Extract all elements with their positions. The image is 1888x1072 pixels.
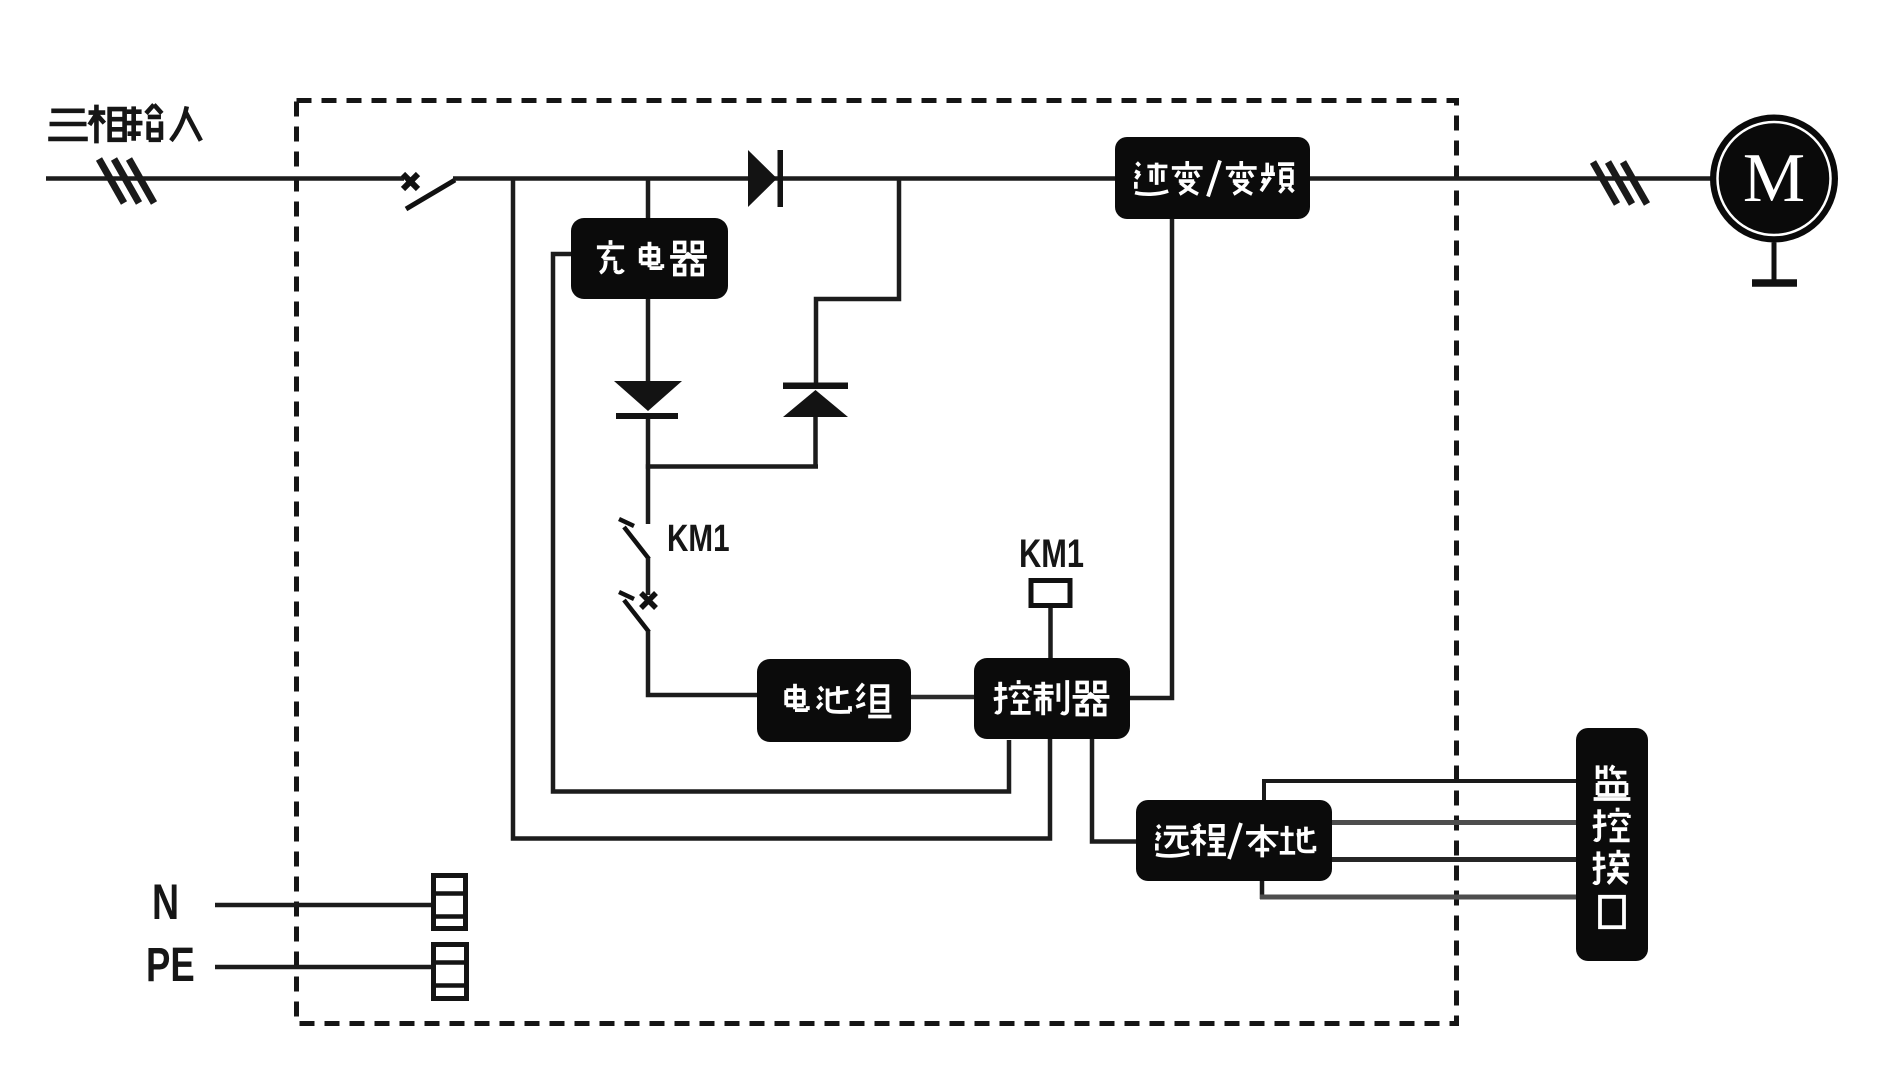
wire: bus branch right of D1 down to free-wheel diode	[816, 178, 899, 384]
wire: charger left tap down and across to controller	[553, 254, 1009, 792]
wire: controller third output to remote/local box	[1092, 739, 1136, 842]
wire: monitor line 4	[1260, 881, 1265, 899]
wire: bus from switch to inverter box	[453, 176, 1118, 181]
box: inverter 逆变/变频	[1115, 137, 1310, 219]
wire: monitor line 3	[1332, 857, 1578, 862]
wire: inverter output to motor	[1310, 176, 1712, 181]
KM1 coil	[1031, 581, 1070, 606]
wire: below D3	[813, 417, 818, 467]
three-phase tick marks (input)	[99, 159, 154, 203]
wire: battery to controller	[911, 695, 974, 700]
wire: three-phase input bus (left of switch)	[46, 176, 404, 181]
switch KM1 contact 1	[619, 519, 634, 526]
switch QS (input disconnect, open blade with x contact)	[403, 174, 418, 189]
motor M	[1710, 115, 1838, 284]
svg-text:PE: PE	[146, 938, 195, 992]
three-phase tick marks (output)	[1593, 162, 1647, 204]
wire: charger feed from bus	[646, 178, 651, 220]
wire: KM1 coil to controller	[1048, 606, 1053, 658]
svg-text:KM1: KM1	[667, 518, 730, 560]
motor shaft	[1772, 243, 1777, 281]
cabinet enclosure (dashed boundary)	[297, 101, 1457, 1024]
box: controller 控制器	[974, 658, 1130, 739]
svg-text:KM1: KM1	[1019, 531, 1084, 576]
wire: monitor line 1	[1264, 781, 1578, 800]
diode D1 (rectifier on bus)	[748, 150, 783, 207]
box: battery pack 电池组	[757, 659, 911, 742]
wire: bypass drop at x=513 down and across to controller	[513, 178, 1050, 839]
switch KM1 contact 2 (with x contact)	[619, 592, 634, 599]
box: charger 充电器	[571, 218, 728, 299]
wire: D2 cathode down to KM1	[646, 419, 651, 524]
diode D2 (charger blocking diode, pointing down)	[614, 381, 682, 419]
wire: KM1 to battery box	[648, 631, 757, 695]
svg-text:M: M	[1743, 140, 1805, 217]
box: monitoring interface 监控接口	[1576, 728, 1648, 961]
wire: tie between D2 and D3 branches	[646, 464, 818, 469]
wire: monitor line 2	[1332, 820, 1578, 825]
diode D3 (boost diode, pointing up)	[783, 383, 848, 418]
wire: charger output down to D2	[646, 299, 651, 382]
label: three-phase input 三相输入	[48, 105, 201, 144]
wire: controller right to inverter vertical	[1130, 219, 1172, 698]
svg-text:N: N	[152, 875, 179, 930]
box: remote/local 远程/本地	[1136, 800, 1332, 881]
